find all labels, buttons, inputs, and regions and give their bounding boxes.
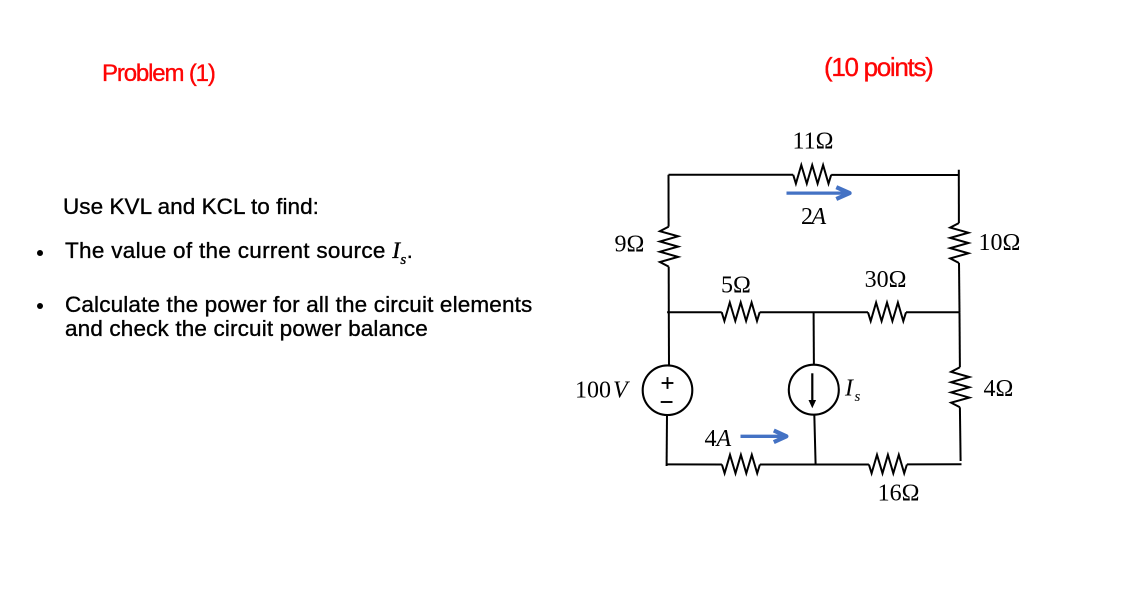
svg-text:4A: 4A xyxy=(705,426,732,452)
heading: Use KVL and KCL to find xyxy=(63,196,319,219)
title Problem (1) xyxy=(102,62,215,86)
current arrow 4A (blue) xyxy=(741,431,787,443)
bullet 1 dot xyxy=(37,250,43,256)
wire bottom-right horizontal xyxy=(907,463,962,465)
wire middle horizontal center segment xyxy=(760,311,868,313)
resistor 10ohm xyxy=(950,223,1020,263)
wire middle vertical above current source xyxy=(813,312,815,365)
bullet 2 dot xyxy=(37,303,43,309)
arrow inside current source xyxy=(811,373,813,401)
svg-text:9Ω: 9Ω xyxy=(614,232,644,258)
resistor 16ohm xyxy=(869,455,920,507)
current arrow 2A (blue) xyxy=(787,187,850,199)
points label xyxy=(824,54,933,80)
bullet 1 text xyxy=(65,240,413,264)
bullet 2 text xyxy=(65,293,532,341)
wire right vertical below middle node xyxy=(959,312,961,367)
resistor 30ohm xyxy=(865,267,907,321)
wire left vertical to middle node xyxy=(668,267,670,313)
svg-text:2A: 2A xyxy=(801,204,827,230)
wire top-right horizontal xyxy=(831,174,959,176)
wire bottom-left horizontal xyxy=(667,463,722,465)
plus sign xyxy=(662,382,674,384)
svg-text:30Ω: 30Ω xyxy=(865,267,907,293)
wire right vertical bottom xyxy=(959,407,962,461)
minus sign xyxy=(661,401,673,403)
wire middle horizontal right segment xyxy=(906,311,960,313)
svg-text:5Ω: 5Ω xyxy=(721,272,751,298)
wire top-left horizontal xyxy=(669,174,794,176)
svg-text:10Ω: 10Ω xyxy=(979,230,1021,256)
svg-text:4Ω: 4Ω xyxy=(984,376,1014,402)
resistor 5ohm xyxy=(721,272,760,321)
wire right vertical top (with overshoot) xyxy=(958,170,960,223)
current source Is circle xyxy=(789,365,839,415)
resistor 9ohm xyxy=(614,227,678,267)
voltage source 100V circle xyxy=(643,365,693,415)
resistor bottom-left (unlabeled) xyxy=(722,455,760,474)
svg-text:Is: Is xyxy=(844,376,861,406)
wire left vertical upper xyxy=(668,175,670,227)
wire middle horizontal left segment xyxy=(667,311,722,313)
svg-text:100 V: 100 V xyxy=(575,377,630,403)
resistor 4ohm xyxy=(951,367,1013,407)
wire below voltage source xyxy=(666,415,668,466)
resistor 11ohm xyxy=(793,129,834,184)
wire bottom-middle horizontal xyxy=(760,464,869,466)
wire left branch down to voltage source xyxy=(668,312,670,366)
svg-text:11Ω: 11Ω xyxy=(793,129,834,155)
wire below current source xyxy=(814,414,815,464)
wire right vertical middle xyxy=(958,263,961,312)
svg-text:16Ω: 16Ω xyxy=(878,481,920,507)
